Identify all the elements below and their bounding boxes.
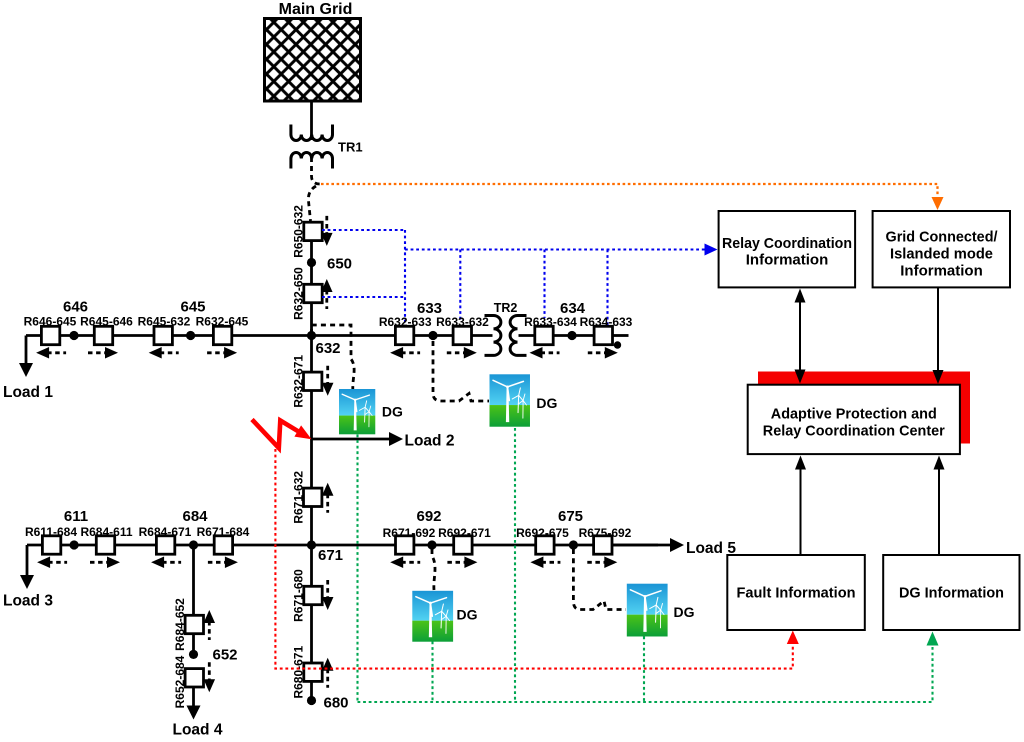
relay R632-650	[304, 284, 322, 302]
svg-text:R680-671: R680-671	[292, 646, 306, 699]
svg-text:Information: Information	[746, 252, 829, 269]
svg-text:Islanded mode: Islanded mode	[890, 246, 993, 263]
relay R684-671	[156, 536, 174, 554]
dashed arrow right at R634-633	[588, 351, 607, 354]
red dotted fault line to Fault Information box	[275, 449, 792, 669]
dashed wire node 675 to DG4	[573, 549, 626, 610]
svg-text:Relay Coordination Center: Relay Coordination Center	[763, 423, 945, 440]
green dotted line from DG1	[356, 435, 358, 703]
svg-text:R611-684: R611-684	[25, 525, 77, 539]
dashed arrow up at R632-650	[325, 290, 328, 309]
svg-text:R634-633: R634-633	[580, 315, 633, 329]
node 671	[307, 540, 316, 549]
svg-text:R684-652: R684-652	[173, 598, 187, 651]
svg-text:692: 692	[416, 508, 441, 525]
svg-text:Fault Information: Fault Information	[737, 585, 856, 602]
Grid Connected Islanded mode Information box	[873, 211, 1010, 287]
svg-text:Main Grid: Main Grid	[279, 1, 353, 18]
svg-text:611: 611	[64, 508, 88, 525]
transformer TR1 primary coil	[291, 125, 333, 141]
relay R646-645	[41, 326, 59, 344]
wire R671-680 to R680-671	[310, 605, 313, 664]
svg-text:Relay Coordination: Relay Coordination	[722, 235, 852, 252]
relay R671-684	[214, 536, 232, 554]
node 632	[307, 331, 316, 340]
dashed arrow left at R684-671	[162, 561, 181, 564]
wire R632-671 to 671	[310, 390, 313, 488]
node 684	[189, 540, 198, 549]
node 650	[307, 258, 316, 267]
fault lightning bolt	[252, 420, 298, 449]
svg-text:R652-684: R652-684	[173, 655, 187, 708]
arrow Grid Connected box to Adaptive center	[937, 288, 939, 372]
svg-text:645: 645	[180, 299, 205, 316]
node 675	[569, 540, 578, 549]
svg-text:Load 3: Load 3	[3, 593, 53, 610]
relay R692-675	[536, 536, 554, 554]
dashed arrow right at R671-684	[208, 561, 227, 564]
bus 632 right wire	[413, 334, 493, 337]
dashed arrow left at R645-632	[160, 351, 179, 354]
relay R680-671	[304, 663, 322, 681]
dashed arrow down at R671-680	[326, 580, 329, 599]
Load 4 drop wire	[192, 687, 195, 707]
svg-text:R650-632: R650-632	[292, 205, 306, 258]
svg-text:684: 684	[182, 508, 208, 525]
relay R633-632	[453, 326, 471, 344]
Fault Information box	[727, 555, 865, 630]
relay R611-684	[42, 536, 60, 554]
svg-text:DG: DG	[674, 604, 695, 620]
blue arrowhead into Relay Coordination box	[705, 244, 718, 256]
dashed arrow right at R645-646	[88, 351, 107, 354]
svg-text:Load 1: Load 1	[3, 384, 53, 401]
dashed wire node 633 to DG2	[433, 341, 489, 401]
svg-text:680: 680	[324, 695, 349, 712]
blue dotted line from R632-650	[322, 296, 405, 298]
arrow Relay Coordination to Adaptive center	[799, 300, 801, 372]
bus 634 end wire	[613, 334, 629, 337]
dashed arrow right at R684-611	[90, 561, 109, 564]
relay R650-632	[304, 222, 322, 240]
relay R671-692	[396, 536, 414, 554]
blue dotted main line to Relay Coordination box	[405, 248, 705, 250]
svg-text:R645-646: R645-646	[80, 315, 133, 329]
blue dotted riser to R632-633	[404, 230, 406, 325]
svg-text:Load 4: Load 4	[173, 722, 223, 739]
DG unit DG2 wind turbine	[490, 374, 530, 426]
svg-text:Grid Connected/: Grid Connected/	[886, 229, 999, 246]
svg-text:R646-645: R646-645	[24, 315, 77, 329]
svg-text:R684-611: R684-611	[80, 525, 132, 539]
svg-text:Load 2: Load 2	[405, 433, 455, 450]
dashed arrow down at R650-632	[325, 216, 328, 235]
DG unit DG4 wind turbine	[627, 584, 668, 637]
svg-text:DG: DG	[382, 404, 403, 420]
blue dotted drop to R633-634	[543, 250, 545, 319]
wire relay R671-632 to bus 671	[310, 507, 313, 547]
wire 650 feeder upper	[310, 241, 313, 285]
svg-text:R633-634: R633-634	[524, 315, 577, 329]
node 692	[427, 540, 436, 549]
transformer TR2 left coil	[485, 316, 501, 356]
relay R684-611	[96, 536, 114, 554]
wire 632 to relay R632-671	[310, 336, 313, 373]
Load 1 drop wire	[25, 336, 28, 365]
orange arrowhead into Grid Connected box	[932, 197, 944, 210]
svg-text:650: 650	[327, 256, 352, 273]
relay R652-684	[185, 669, 203, 687]
bus 671 wire	[27, 544, 658, 547]
svg-text:DG Information: DG Information	[899, 585, 1004, 602]
svg-text:R671-692: R671-692	[383, 526, 436, 540]
svg-text:671: 671	[318, 547, 343, 564]
relay R692-671	[454, 536, 472, 554]
svg-text:R632-671: R632-671	[292, 355, 306, 408]
svg-text:Adaptive Protection and: Adaptive Protection and	[771, 406, 937, 423]
dashed arrow right at R632-645	[207, 351, 226, 354]
svg-text:R632-645: R632-645	[196, 315, 249, 329]
relay R632-645	[213, 326, 231, 344]
wire R684-652 to node 652	[192, 634, 195, 655]
relay R671-680	[304, 586, 322, 604]
dashed wire bus 632 to DG1	[312, 325, 355, 389]
relay R671-632	[304, 488, 322, 506]
dashed arrow left at R671-692	[401, 561, 420, 564]
Load 5 wire	[612, 544, 671, 547]
DG unit DG3 wind turbine	[412, 591, 453, 642]
green dotted line from DG4	[643, 637, 645, 703]
svg-text:652: 652	[213, 647, 238, 664]
dashed arrow left at R611-684	[48, 561, 67, 564]
svg-text:DG: DG	[457, 607, 478, 623]
relay R633-634	[535, 326, 553, 344]
bus 632 wire TR2 to R633-634	[519, 334, 594, 337]
node 645	[186, 331, 195, 340]
dashed wire node 692 to DG3	[432, 549, 435, 590]
svg-text:R692-675: R692-675	[516, 526, 569, 540]
svg-text:R671-632: R671-632	[292, 471, 306, 524]
Load 2 wire	[312, 438, 391, 441]
relay R684-652	[185, 615, 203, 633]
svg-text:TR1: TR1	[338, 140, 363, 155]
svg-text:R671-680: R671-680	[292, 569, 306, 622]
bus 632 left wire	[26, 334, 395, 337]
svg-text:675: 675	[558, 508, 583, 525]
main grid box (hatched)	[265, 19, 361, 102]
dashed arrow down at R632-671	[326, 366, 329, 385]
svg-text:R671-684: R671-684	[197, 525, 250, 539]
dashed arrow right at R692-671	[447, 561, 466, 564]
DG Information box	[883, 555, 1019, 630]
wire 650 to 632	[310, 303, 313, 336]
svg-text:TR2: TR2	[494, 301, 518, 315]
relay R632-633	[395, 326, 413, 344]
orange dotted line TR1 breaker status to Grid Connected box	[321, 184, 938, 196]
dashed arrow right at R633-632	[447, 351, 466, 354]
blue dotted drop to R633-632	[459, 250, 461, 323]
arrow Fault Information to Adaptive center	[800, 468, 802, 555]
svg-text:632: 632	[316, 340, 341, 357]
red arrowhead into Fault Information box	[787, 631, 799, 645]
node 652	[189, 650, 198, 659]
dashed arrow left at R632-633	[401, 351, 420, 354]
Adaptive Protection and Relay Coordination Center box	[748, 385, 960, 454]
svg-text:R675-692: R675-692	[579, 526, 632, 540]
dashed wire TR1 to relay R650-632	[312, 157, 321, 184]
relay R645-646	[94, 326, 112, 344]
dashed arrow left at R646-645	[47, 351, 66, 354]
relay R632-671	[304, 372, 322, 390]
svg-text:R633-632: R633-632	[436, 315, 489, 329]
node 646	[69, 331, 78, 340]
dashed arrow down at R652-684	[208, 662, 211, 681]
wire main grid to TR1	[310, 101, 313, 140]
dashed arrow up at R671-632	[326, 494, 329, 513]
wire 684 to relay R684-652	[192, 545, 195, 615]
Relay Coordination Information box	[719, 211, 856, 287]
svg-text:R632-650: R632-650	[292, 267, 306, 320]
svg-text:646: 646	[63, 299, 88, 316]
relay R675-692	[594, 536, 612, 554]
dashed arrow left at R692-675	[541, 561, 560, 564]
svg-text:R684-671: R684-671	[139, 525, 192, 539]
blue dotted line from R650-632	[322, 229, 405, 231]
dashed arrow right at R675-692	[587, 561, 606, 564]
blue dotted drop to R634-633	[606, 250, 608, 329]
svg-text:Information: Information	[900, 263, 983, 280]
svg-text:DG: DG	[536, 395, 557, 411]
green dotted line from DG2	[514, 428, 516, 702]
node 680	[307, 696, 316, 705]
relay R645-632	[154, 326, 172, 344]
node 634	[567, 331, 576, 340]
green arrowhead into DG Information box	[927, 632, 939, 646]
svg-text:R645-632: R645-632	[138, 315, 191, 329]
transformer TR2 right coil	[510, 316, 526, 356]
wire R680-671 to node 680	[310, 681, 313, 700]
svg-text:R692-671: R692-671	[438, 526, 491, 540]
wire 671 to relay R671-680	[310, 545, 313, 587]
arrow DG Information to Adaptive center	[938, 468, 940, 555]
green dotted bus to DG Information box	[358, 645, 933, 702]
DG unit DG1 wind turbine	[339, 389, 375, 434]
dashed arrow up at R680-671	[326, 669, 329, 688]
red shadow rectangle	[758, 372, 970, 444]
dashed arrow up at R684-652	[208, 621, 211, 640]
green dotted line from DG3	[431, 642, 433, 703]
node 611	[70, 540, 79, 549]
Load 3 drop wire	[26, 545, 29, 576]
dashed arrow left at R633-634	[541, 351, 560, 354]
node 633	[428, 331, 437, 340]
transformer TR1 secondary coil	[291, 153, 333, 169]
node 634 load tap	[614, 341, 621, 348]
svg-text:R632-633: R632-633	[379, 315, 432, 329]
relay R634-633	[594, 326, 612, 344]
